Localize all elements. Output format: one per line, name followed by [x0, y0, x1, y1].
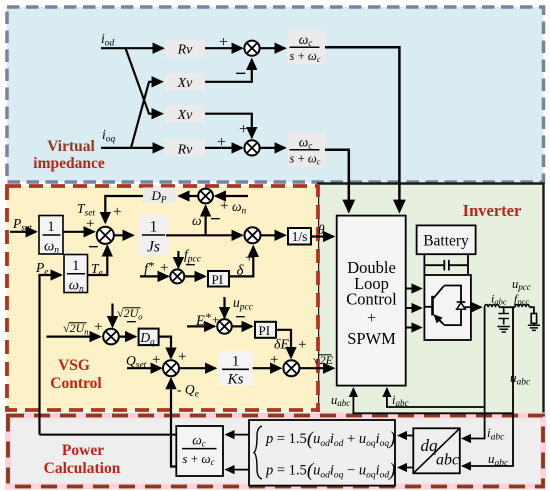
wire sqrt2Uo down to sum4: [111, 304, 113, 327]
wire fpcc down to sum3: [177, 251, 179, 268]
sign plus fstar: [160, 260, 168, 276]
wire Pe from below to 1/wn2: [40, 275, 62, 435]
node Qe label: [177, 382, 199, 400]
inductor L1: [485, 305, 499, 308]
svg-text:PI: PI: [259, 323, 271, 338]
wire sum B to filter2: [260, 147, 285, 149]
svg-text:1: 1: [47, 219, 54, 235]
wire PI2 down to sum6 top: [276, 330, 291, 358]
node iabc filter label: [491, 292, 507, 307]
wire DLC to bridge arrows: [406, 289, 421, 328]
wire sum1 to 1/Js: [114, 234, 133, 236]
wire Xv1 to sum A bottom: [205, 60, 252, 82]
svg-text:1: 1: [150, 219, 158, 236]
svg-text:θ: θ: [318, 222, 325, 237]
wire theta to DLC: [311, 235, 334, 237]
block 1/s: [288, 228, 311, 245]
inverter section background: [317, 182, 545, 415]
svg-text:−: −: [126, 312, 137, 333]
node Te label: [91, 261, 103, 279]
node iabc DLC label: [392, 393, 408, 408]
summing junction 3: [170, 269, 184, 283]
wire eq box to power filter top: [226, 434, 249, 436]
inductor L2: [515, 305, 529, 308]
svg-text:Xv: Xv: [177, 108, 194, 123]
block Xv2: [165, 105, 205, 123]
svg-text:Rv: Rv: [177, 143, 194, 158]
wire upcc down to sum7: [223, 297, 225, 318]
wire sum3 to PI1: [184, 275, 205, 277]
node sqrt2Uo label: [117, 306, 143, 322]
wire sum6 sqrt2E to DLC: [299, 367, 333, 369]
svg-text:Control: Control: [50, 375, 102, 392]
block PI2: [255, 322, 276, 338]
svg-text:1: 1: [72, 258, 79, 274]
node Pset label: [12, 216, 32, 234]
svg-text:Power: Power: [62, 442, 104, 459]
sign minus fpcc: [185, 255, 196, 276]
wire L1 to L2: [499, 306, 515, 308]
node fpcc label: [184, 247, 202, 265]
svg-text:p = 1.5(uodiod + uoqioq): p = 1.5(uodiod + uoqioq): [265, 429, 395, 450]
svg-text:−: −: [235, 307, 246, 328]
block 1/wn second: [64, 255, 88, 295]
wire Xv2 to sum B top: [205, 114, 252, 138]
svg-text:+: +: [270, 352, 278, 368]
svg-text:+: +: [220, 198, 228, 214]
node upcc label: [512, 277, 531, 292]
summing junction 4: [103, 329, 119, 345]
svg-text:Control: Control: [346, 290, 397, 309]
wire omega up to sumDP: [205, 206, 207, 235]
node uabc DLC label: [331, 393, 350, 408]
svg-text:−: −: [235, 63, 246, 85]
sign plus Rv2: [217, 134, 226, 151]
svg-text:s + ωc: s + ωc: [182, 451, 214, 467]
node upcc label: [233, 295, 254, 313]
svg-text:−: −: [185, 255, 196, 276]
svg-text:Ks: Ks: [227, 372, 244, 388]
svg-text:+: +: [152, 352, 160, 368]
sign plus Xv2: [239, 121, 248, 138]
wire Qset to sum5: [127, 367, 161, 369]
wire dq to eq box bottom: [399, 467, 414, 469]
VSG control section background: [7, 186, 318, 410]
block filter1 wc/(s+wc): [288, 30, 326, 64]
sign plus sqrt2Un: [94, 319, 102, 335]
sign plus Estar: [212, 312, 219, 327]
summing junction 6: [283, 360, 299, 376]
sign minus upcc: [235, 307, 246, 328]
sign plus wn: [220, 198, 228, 214]
svg-text:δ: δ: [237, 263, 245, 279]
wire DP output to sum1 top: [105, 196, 147, 223]
svg-text:s + ωc: s + ωc: [290, 152, 321, 167]
summing junction 2: [245, 227, 261, 243]
svg-text:+: +: [217, 134, 226, 151]
wire filter2 down to DLC: [325, 150, 349, 212]
node uabc green label: [510, 370, 531, 388]
load resistor: [531, 314, 536, 324]
wire iod diagonal to Xv2: [126, 48, 163, 114]
node sqrt2E label: [313, 353, 334, 367]
diode antiparallel: [457, 302, 471, 309]
wire sum A to filter1: [260, 47, 285, 49]
label Power Calculation: [44, 442, 121, 477]
summing junction 1: [97, 227, 114, 244]
wire Te up to sum1 bottom: [88, 246, 108, 275]
wire 1/Js to sum2: [166, 234, 242, 236]
svg-text:−: −: [88, 237, 99, 258]
svg-text:Js: Js: [147, 239, 160, 256]
svg-text:+: +: [245, 250, 253, 266]
wire dq to eq box top: [399, 435, 414, 437]
summing junction B: [244, 140, 259, 155]
block Double Loop Control + SPWM: [337, 216, 406, 386]
block Rv2: [165, 139, 205, 158]
svg-text:Rv: Rv: [177, 43, 194, 58]
svg-text:+: +: [298, 337, 306, 353]
node ioq label: [102, 127, 116, 145]
sign plus left sum1: [86, 216, 94, 232]
virtual impedance section background: [7, 7, 544, 182]
capacitor dc link: [424, 260, 468, 271]
wire filter1 down to DLC: [325, 47, 399, 211]
block 1/Js: [139, 215, 168, 256]
sign plus deltaE: [298, 337, 306, 353]
wire 1/wn to sum1: [63, 231, 94, 233]
block DP: [143, 188, 176, 205]
svg-text:Virtual: Virtual: [47, 138, 95, 155]
node uabc dq label: [488, 451, 509, 469]
svg-text:Calculation: Calculation: [44, 460, 121, 477]
svg-text:−: −: [210, 209, 221, 230]
svg-text:+: +: [160, 260, 168, 276]
block PI1: [208, 271, 229, 287]
wire ioq to Rv2: [101, 147, 163, 149]
node Tset label: [77, 201, 95, 219]
wire iabc measure down: [463, 307, 485, 438]
wire Qe up to sum5 bottom: [171, 379, 176, 467]
transistor IGBT: [424, 286, 461, 326]
node omega label: [192, 213, 202, 228]
sign minus omega: [210, 209, 221, 230]
wire D to sum5 top: [159, 337, 171, 358]
block Battery: [417, 225, 476, 254]
svg-text:Xv: Xv: [177, 76, 194, 91]
svg-text:SPWM: SPWM: [347, 329, 396, 348]
capacitor filter: [498, 307, 509, 324]
svg-text:impedance: impedance: [33, 155, 105, 172]
sign minus sqrt2Uo: [126, 312, 137, 333]
svg-text:abc: abc: [436, 452, 459, 469]
wire Estar to sum7: [187, 325, 215, 327]
wire sum4 to D block: [119, 336, 136, 338]
wire 1/Ks to sum6: [253, 367, 281, 369]
node fstar label: [144, 259, 154, 278]
node Qset label: [126, 353, 147, 371]
svg-text:δE: δE: [274, 338, 290, 353]
block 1/Ks: [219, 351, 253, 387]
block filter2 wc/(s+wc): [288, 133, 326, 167]
block 1/wn first: [39, 216, 63, 256]
node Pe label: [35, 260, 48, 278]
node theta label: [318, 222, 325, 237]
wire fstar to sum3: [140, 275, 168, 277]
wire sum2 to 1/s: [261, 234, 286, 236]
label Inverter: [463, 201, 522, 220]
sign plus delta: [245, 250, 253, 266]
svg-text:1: 1: [232, 354, 240, 370]
node iod label: [101, 31, 115, 49]
node Estar label: [195, 310, 211, 329]
svg-text:ω: ω: [192, 213, 202, 228]
ground filter cap: [497, 327, 510, 333]
wire uabc to DLC: [353, 389, 513, 414]
svg-text:+: +: [94, 319, 102, 335]
wire sumDP to DP: [179, 195, 198, 197]
block Rv1: [165, 40, 205, 58]
wire PI1 up to sum2: [229, 247, 253, 277]
sign minus Xv1: [235, 63, 246, 85]
block power filter wc/(s+wc): [176, 426, 223, 476]
wire uabc measure down: [463, 307, 514, 466]
wire wn into sumDP: [216, 195, 249, 197]
wire ioq diagonal to Xv1: [131, 82, 162, 148]
sign minus bottom sum1: [88, 237, 99, 258]
svg-text:+: +: [367, 310, 376, 327]
node iabc dq label: [487, 425, 505, 443]
node delta label: [237, 263, 245, 279]
ground load: [528, 323, 540, 330]
wire Pset to 1/wn: [10, 231, 36, 233]
block Dq: [139, 329, 159, 347]
node deltaE label: [274, 338, 290, 353]
block inverter bridge: [424, 275, 471, 340]
wire sum7 to PI2: [232, 325, 252, 327]
wire Rv1 to sum A: [205, 47, 242, 49]
wire power filter to Pe and Qe: [40, 434, 177, 436]
summing junction DP: [198, 189, 213, 204]
summing junction A: [244, 41, 259, 56]
svg-text:+: +: [239, 121, 248, 138]
svg-text:+: +: [178, 349, 186, 365]
wire L2 to load: [529, 307, 534, 313]
svg-text:Battery: Battery: [423, 233, 469, 250]
wire eq box to power filter bottom: [226, 469, 249, 471]
block Xv1: [165, 73, 205, 91]
svg-text:+: +: [113, 204, 121, 220]
svg-text:Inverter: Inverter: [463, 201, 522, 220]
sign plus Qset: [152, 352, 160, 368]
label VSG Control: [50, 357, 102, 392]
wire iod to Rv1: [101, 47, 163, 49]
svg-text:p = 1.5(uodioq − uoqiod): p = 1.5(uodioq − uoqiod): [265, 460, 395, 481]
node wn label: [232, 199, 247, 217]
wire bridge output: [471, 306, 481, 308]
wire iabc to DLC: [387, 389, 485, 408]
sign plus 1/Ks: [270, 352, 278, 368]
wire Rv2 to sum B: [205, 147, 242, 149]
sign plus top sum1: [113, 204, 121, 220]
node fpcc label: [514, 292, 529, 307]
wire battery rails: [424, 254, 468, 275]
block dq/abc: [413, 428, 460, 473]
power calculation section background: [8, 416, 543, 487]
wire sqrt2Un to sum4: [47, 336, 101, 338]
sign plus Rv1: [219, 34, 228, 51]
sign plus D: [178, 349, 186, 365]
svg-text:VSG: VSG: [58, 357, 90, 374]
svg-text:s + ωc: s + ωc: [290, 49, 321, 64]
wire sum5 to 1/Ks: [179, 367, 216, 369]
block equations: [249, 420, 395, 486]
svg-text:PI: PI: [212, 272, 224, 287]
summing junction 5: [163, 360, 179, 376]
svg-text:1/s: 1/s: [292, 229, 308, 244]
svg-text:+: +: [219, 34, 228, 51]
node sqrt2Un label: [63, 321, 89, 337]
label Virtual impedance: [33, 138, 105, 172]
summing junction 7: [217, 319, 232, 334]
